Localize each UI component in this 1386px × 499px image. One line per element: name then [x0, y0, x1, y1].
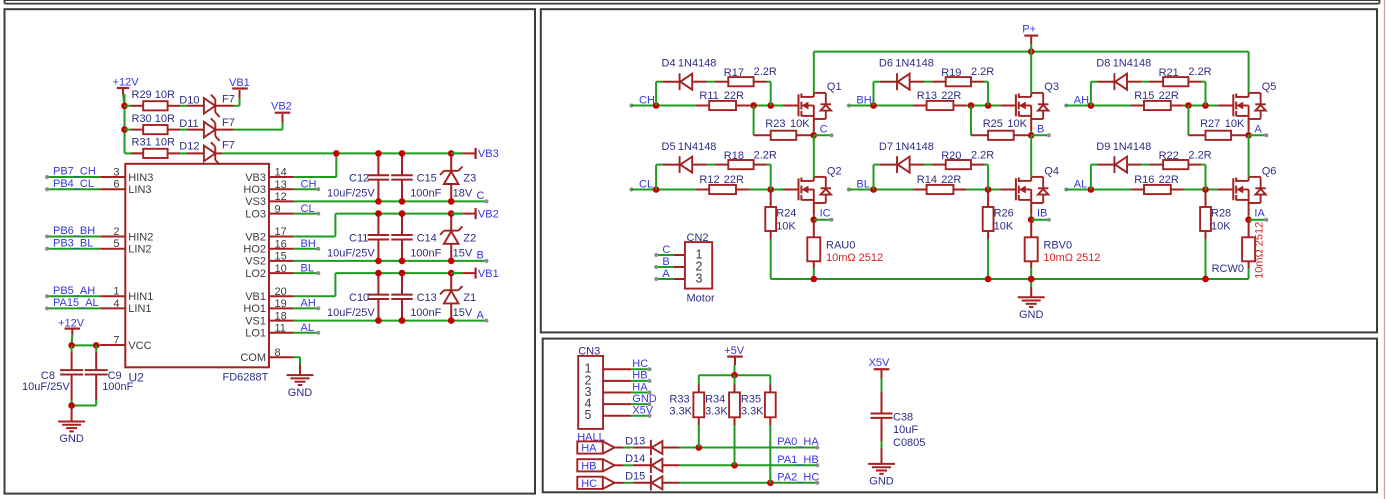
svg-text:CH: CH [301, 178, 317, 190]
svg-text:D7: D7 [879, 141, 893, 153]
svg-text:CL: CL [301, 203, 315, 215]
svg-text:D14: D14 [625, 453, 645, 465]
svg-text:2.2R: 2.2R [754, 66, 777, 78]
svg-text:2: 2 [113, 226, 119, 238]
svg-text:10mΩ 2512: 10mΩ 2512 [1254, 222, 1266, 279]
svg-text:PA1_HB: PA1_HB [777, 454, 818, 466]
svg-text:Z3: Z3 [463, 173, 476, 185]
svg-text:15V: 15V [453, 247, 473, 259]
svg-text:10: 10 [275, 263, 287, 275]
svg-text:2.2R: 2.2R [1188, 149, 1211, 161]
svg-text:PA0_HA: PA0_HA [777, 436, 819, 448]
svg-text:13: 13 [275, 179, 287, 191]
svg-text:3: 3 [696, 271, 703, 285]
svg-text:Z1: Z1 [463, 292, 476, 304]
svg-text:D15: D15 [625, 471, 645, 483]
svg-text:VB1: VB1 [245, 291, 266, 303]
svg-text:Q2: Q2 [827, 165, 842, 177]
svg-text:D8: D8 [1096, 58, 1110, 70]
svg-text:1N4148: 1N4148 [895, 141, 934, 153]
svg-text:R33: R33 [669, 393, 689, 405]
svg-text:CN3: CN3 [578, 346, 600, 358]
svg-text:22R: 22R [941, 174, 961, 186]
svg-text:5: 5 [113, 238, 119, 250]
svg-text:VB2: VB2 [245, 231, 266, 243]
svg-text:Q4: Q4 [1044, 165, 1059, 177]
svg-text:22R: 22R [724, 90, 744, 102]
svg-text:2.2R: 2.2R [1188, 66, 1211, 78]
svg-text:R17: R17 [724, 67, 744, 79]
svg-text:D9: D9 [1096, 141, 1110, 153]
svg-text:X5V: X5V [632, 405, 653, 417]
svg-text:R25: R25 [983, 118, 1003, 130]
svg-text:19: 19 [275, 298, 287, 310]
svg-text:GND: GND [288, 387, 313, 399]
svg-text:Q1: Q1 [827, 81, 842, 93]
svg-text:1N4148: 1N4148 [678, 141, 717, 153]
svg-text:R12: R12 [699, 174, 719, 186]
svg-text:R15: R15 [1134, 90, 1154, 102]
svg-text:R20: R20 [941, 150, 961, 162]
svg-text:22R: 22R [1159, 90, 1179, 102]
svg-text:F7: F7 [222, 117, 235, 129]
svg-text:LO2: LO2 [245, 268, 266, 280]
svg-text:12: 12 [275, 191, 287, 203]
svg-text:6: 6 [113, 179, 119, 191]
svg-text:AL: AL [301, 322, 314, 334]
svg-text:10uF/25V: 10uF/25V [327, 307, 375, 319]
svg-text:D5: D5 [662, 141, 676, 153]
svg-text:18V: 18V [453, 187, 473, 199]
svg-text:RCW0: RCW0 [1212, 263, 1244, 275]
svg-text:2.2R: 2.2R [971, 66, 994, 78]
svg-text:10K: 10K [790, 118, 810, 130]
svg-text:B: B [1037, 124, 1044, 136]
svg-text:R29 10R: R29 10R [132, 89, 175, 101]
svg-text:Motor: Motor [687, 292, 715, 304]
svg-text:A: A [662, 268, 670, 280]
svg-text:VS2: VS2 [245, 256, 266, 268]
svg-text:PB6_BH: PB6_BH [53, 225, 95, 237]
svg-text:RAU0: RAU0 [826, 240, 855, 252]
svg-text:22R: 22R [724, 174, 744, 186]
svg-text:HC: HC [632, 358, 648, 370]
svg-text:VB3: VB3 [478, 148, 499, 160]
svg-text:10mΩ 2512: 10mΩ 2512 [1043, 252, 1100, 264]
svg-text:VS3: VS3 [245, 196, 266, 208]
svg-text:16: 16 [275, 238, 287, 250]
svg-text:3.3K: 3.3K [741, 406, 764, 418]
svg-text:C10: C10 [349, 292, 369, 304]
svg-text:VB2: VB2 [478, 208, 499, 220]
svg-text:10K: 10K [994, 221, 1014, 233]
svg-text:17: 17 [275, 226, 287, 238]
svg-text:R18: R18 [724, 150, 744, 162]
svg-text:PA15_AL: PA15_AL [53, 297, 99, 309]
svg-text:R35: R35 [741, 393, 761, 405]
svg-text:GND: GND [632, 393, 657, 405]
svg-text:5: 5 [585, 408, 592, 422]
svg-text:GND: GND [1019, 309, 1044, 321]
svg-text:D6: D6 [879, 58, 893, 70]
svg-text:10mΩ 2512: 10mΩ 2512 [826, 252, 883, 264]
svg-text:FD6288T: FD6288T [223, 372, 269, 384]
svg-text:10uF/25V: 10uF/25V [327, 187, 375, 199]
svg-text:R16: R16 [1134, 174, 1154, 186]
svg-text:10K: 10K [776, 221, 796, 233]
svg-text:10uF: 10uF [893, 424, 918, 436]
svg-text:R23: R23 [765, 118, 785, 130]
svg-text:R11: R11 [699, 90, 718, 102]
svg-text:R13: R13 [917, 90, 937, 102]
svg-text:CN2: CN2 [687, 232, 709, 244]
svg-text:LIN2: LIN2 [128, 244, 151, 256]
svg-text:Z2: Z2 [463, 233, 476, 245]
svg-text:GND: GND [869, 476, 894, 488]
svg-text:PB7_CH: PB7_CH [53, 166, 96, 178]
svg-text:1N4148: 1N4148 [895, 58, 934, 70]
svg-text:P+: P+ [1022, 24, 1036, 36]
svg-text:HB: HB [581, 461, 596, 473]
svg-text:HO1: HO1 [243, 303, 266, 315]
svg-text:C11: C11 [349, 233, 368, 245]
svg-text:F7: F7 [222, 94, 235, 106]
svg-text:R21: R21 [1159, 67, 1179, 79]
svg-text:+12V: +12V [113, 76, 140, 88]
svg-text:Q3: Q3 [1044, 81, 1059, 93]
svg-text:11: 11 [275, 323, 286, 335]
svg-text:3: 3 [113, 167, 119, 179]
svg-text:R34: R34 [705, 393, 725, 405]
svg-text:X5V: X5V [869, 357, 890, 369]
svg-text:VCC: VCC [128, 340, 151, 352]
svg-text:C15: C15 [417, 173, 437, 185]
svg-text:+5V: +5V [724, 345, 745, 357]
svg-text:PB5_AH: PB5_AH [53, 285, 95, 297]
svg-text:C: C [820, 124, 828, 136]
svg-text:D11: D11 [179, 118, 198, 130]
svg-text:HB: HB [632, 370, 647, 382]
svg-text:HO2: HO2 [243, 244, 266, 256]
svg-text:10K: 10K [1211, 221, 1231, 233]
svg-text:VB1: VB1 [229, 77, 250, 89]
svg-text:VB3: VB3 [245, 172, 266, 184]
svg-text:R30 10R: R30 10R [132, 113, 175, 125]
svg-text:R26: R26 [994, 208, 1014, 220]
svg-text:LIN3: LIN3 [128, 184, 151, 196]
svg-text:HIN3: HIN3 [128, 172, 153, 184]
svg-text:14: 14 [275, 167, 287, 179]
svg-text:C12: C12 [349, 173, 369, 185]
svg-text:VB2: VB2 [271, 100, 292, 112]
svg-text:10uF/25V: 10uF/25V [327, 247, 375, 259]
svg-text:100nF: 100nF [410, 307, 441, 319]
svg-text:IB: IB [1037, 208, 1047, 220]
svg-text:1: 1 [113, 286, 119, 298]
svg-text:10K: 10K [1225, 118, 1245, 130]
svg-text:3.3K: 3.3K [705, 406, 728, 418]
svg-text:3.3K: 3.3K [669, 406, 692, 418]
svg-text:RBV0: RBV0 [1043, 240, 1072, 252]
svg-text:Q5: Q5 [1262, 81, 1277, 93]
svg-text:15: 15 [275, 251, 287, 263]
svg-text:D4: D4 [662, 58, 676, 70]
svg-text:R24: R24 [776, 208, 796, 220]
svg-text:PA2_HC: PA2_HC [777, 472, 819, 484]
svg-text:HO3: HO3 [243, 184, 266, 196]
svg-text:R22: R22 [1159, 150, 1179, 162]
svg-text:100nF: 100nF [102, 381, 133, 393]
svg-text:AH: AH [301, 298, 316, 310]
svg-text:C14: C14 [417, 233, 437, 245]
svg-text:D12: D12 [179, 141, 199, 153]
svg-text:HIN1: HIN1 [128, 291, 153, 303]
svg-text:22R: 22R [1159, 174, 1179, 186]
svg-text:A: A [477, 309, 485, 321]
svg-text:1N4148: 1N4148 [678, 58, 717, 70]
svg-text:15V: 15V [453, 307, 473, 319]
svg-text:Q6: Q6 [1262, 165, 1277, 177]
svg-text:PB4_CL: PB4_CL [53, 178, 94, 190]
svg-text:18: 18 [275, 310, 287, 322]
svg-text:GND: GND [59, 433, 84, 445]
svg-text:F7: F7 [222, 140, 235, 152]
svg-text:LO3: LO3 [245, 208, 266, 220]
svg-text:100nF: 100nF [410, 187, 441, 199]
svg-text:C0805: C0805 [893, 437, 925, 449]
svg-text:A: A [1254, 124, 1262, 136]
svg-text:IA: IA [1254, 208, 1265, 220]
svg-text:R14: R14 [917, 174, 937, 186]
svg-text:COM: COM [240, 352, 266, 364]
svg-text:100nF: 100nF [410, 247, 441, 259]
svg-text:LO1: LO1 [245, 328, 266, 340]
svg-text:VB1: VB1 [478, 268, 499, 280]
svg-text:D10: D10 [179, 95, 199, 107]
svg-text:C: C [662, 244, 670, 256]
svg-text:1N4148: 1N4148 [1113, 58, 1152, 70]
svg-text:BH: BH [301, 238, 316, 250]
svg-text:10uF/25V: 10uF/25V [22, 381, 70, 393]
svg-text:B: B [477, 250, 484, 262]
svg-text:1N4148: 1N4148 [1113, 141, 1152, 153]
svg-text:C13: C13 [417, 292, 437, 304]
svg-text:LIN1: LIN1 [128, 303, 151, 315]
svg-text:HIN2: HIN2 [128, 231, 153, 243]
svg-text:R28: R28 [1211, 208, 1231, 220]
svg-text:HA: HA [581, 443, 597, 455]
svg-text:2.2R: 2.2R [971, 149, 994, 161]
svg-text:2.2R: 2.2R [754, 149, 777, 161]
svg-text:VS1: VS1 [245, 315, 266, 327]
svg-text:BL: BL [301, 262, 314, 274]
svg-text:C38: C38 [893, 411, 913, 423]
svg-text:R27: R27 [1200, 118, 1220, 130]
svg-text:R19: R19 [941, 67, 961, 79]
svg-text:HA: HA [632, 381, 648, 393]
svg-text:IC: IC [820, 208, 831, 220]
svg-text:HC: HC [581, 478, 597, 490]
svg-text:D13: D13 [625, 435, 645, 447]
svg-text:9: 9 [275, 203, 281, 215]
svg-text:PB3_BL: PB3_BL [53, 237, 93, 249]
svg-text:20: 20 [275, 286, 287, 298]
svg-text:4: 4 [113, 298, 119, 310]
svg-text:22R: 22R [941, 90, 961, 102]
svg-text:R31 10R: R31 10R [132, 137, 175, 149]
svg-text:C: C [477, 190, 485, 202]
svg-text:B: B [662, 256, 669, 268]
svg-text:10K: 10K [1007, 118, 1027, 130]
